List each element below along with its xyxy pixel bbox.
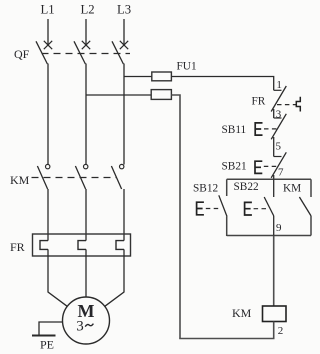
FR trip element symbol xyxy=(296,97,300,112)
contactor KM pole 1 fixed contact circle xyxy=(46,164,50,168)
wire L2 to QF xyxy=(85,19,87,46)
breaker QF pole 1 X mark xyxy=(44,41,52,49)
SB21 actuator dashed link xyxy=(264,165,277,167)
wire node7 to parallel box xyxy=(273,175,275,179)
wire QF pole2 to KM contact xyxy=(85,64,87,165)
breaker QF pole 2 blade xyxy=(74,41,85,64)
wire KM pole1 to FR heater xyxy=(47,189,49,241)
contactor KM pole 3 blade xyxy=(111,166,121,189)
svg-text:SB11: SB11 xyxy=(222,124,247,136)
pushbutton SB11 actuator E xyxy=(255,123,262,135)
wire coil to bottom return xyxy=(273,322,275,339)
svg-text:KM: KM xyxy=(283,182,301,194)
svg-text:QF: QF xyxy=(14,47,30,61)
svg-text:SB12: SB12 xyxy=(193,182,218,194)
wire FR phase2 to motor xyxy=(85,249,87,297)
wire L2 tap to fuse FU1 lower xyxy=(86,94,152,96)
wire L1 to QF xyxy=(47,19,49,46)
thermal relay FR box xyxy=(33,234,131,256)
contactor KM pole 3 fixed contact circle xyxy=(120,164,124,168)
wire node1 to node3 xyxy=(273,109,275,118)
SB12 actuator dashed link xyxy=(206,208,222,210)
fuse FU1 upper body xyxy=(152,72,172,81)
relay contact FR (NC) seat tick xyxy=(274,89,282,91)
node L3 xyxy=(117,3,131,17)
svg-text:SB21: SB21 xyxy=(222,160,247,172)
wire FR phase3 to motor xyxy=(105,249,124,306)
FR heater element phase 2 xyxy=(78,241,86,250)
parallel branch top wire xyxy=(227,178,311,180)
wire node9 to coil xyxy=(273,236,275,307)
SB11 actuator dashed link xyxy=(264,128,277,130)
wire L3 tap to fuse FU1 upper xyxy=(124,76,152,78)
pushbutton SB12 actuator E xyxy=(197,202,204,215)
breaker QF pole 3 blade xyxy=(112,41,123,64)
node L1 xyxy=(40,3,54,17)
parallel branch bottom wire xyxy=(227,235,311,237)
svg-text:PE: PE xyxy=(40,338,54,352)
FR heater element phase 1 xyxy=(40,241,48,250)
breaker QF pole 1 blade xyxy=(36,41,47,64)
pushbutton SB12 (NO) blade xyxy=(219,195,227,216)
ground PE bar xyxy=(32,335,56,337)
svg-text:7: 7 xyxy=(278,167,284,179)
svg-text:KM: KM xyxy=(232,306,252,320)
contactor KM linkage dashed line xyxy=(32,177,118,179)
FR trip actuator dashed link xyxy=(277,104,296,106)
wire fuse upper to control corner xyxy=(171,77,273,91)
svg-text:1: 1 xyxy=(276,79,282,91)
SB22 actuator dashed link xyxy=(254,208,269,210)
wire KM pole3 to FR heater xyxy=(123,189,125,241)
svg-text:3: 3 xyxy=(76,319,84,335)
pushbutton SB21 (NC) seat tick xyxy=(274,156,282,158)
wire FR phase1 to motor xyxy=(48,249,67,306)
svg-text:L2: L2 xyxy=(80,3,94,17)
wire QF pole1 to KM contact xyxy=(47,64,49,165)
svg-text:9: 9 xyxy=(276,222,282,234)
svg-text:FR: FR xyxy=(10,240,25,254)
wire L3 to QF xyxy=(123,19,125,46)
wire SB22 branch upper xyxy=(273,179,275,197)
fuse FU1 lower body xyxy=(151,90,171,100)
relay contact FR (NC) blade xyxy=(271,86,286,112)
svg-text:FR: FR xyxy=(252,96,266,108)
wire KM aux branch lower xyxy=(310,216,312,236)
svg-text:SB22: SB22 xyxy=(234,181,259,193)
wire KM aux branch upper xyxy=(310,179,312,197)
svg-text:2: 2 xyxy=(278,325,284,337)
FR heater element phase 3 xyxy=(116,241,124,250)
svg-text:5: 5 xyxy=(276,140,282,152)
breaker QF pole 3 X mark xyxy=(120,41,128,49)
pushbutton SB22 actuator E xyxy=(245,202,252,215)
svg-text:L1: L1 xyxy=(40,3,54,17)
wire fuse lower to return rail corner xyxy=(171,95,180,339)
svg-text:L3: L3 xyxy=(117,3,131,17)
coil KM body xyxy=(263,306,287,322)
wire SB22 branch lower to node 9 xyxy=(273,216,275,236)
node L2 xyxy=(80,3,94,17)
contactor KM pole 1 blade xyxy=(37,166,47,189)
breaker QF pole 2 X mark xyxy=(82,41,90,49)
bottom return wire xyxy=(179,338,274,340)
contactor KM pole 2 blade xyxy=(75,166,85,189)
wire motor to PE xyxy=(39,322,63,336)
pushbutton SB21 actuator E xyxy=(255,161,262,173)
wire node3 to node5 xyxy=(273,137,275,157)
breaker QF linkage dashed line xyxy=(42,53,131,55)
wire KM pole2 to FR heater xyxy=(85,189,87,241)
contactor KM pole 2 fixed contact circle xyxy=(84,164,88,168)
wire SB12 branch upper xyxy=(226,179,228,196)
pushbutton SB11 (NC) seat tick xyxy=(274,117,282,119)
pushbutton SB22 (NO) blade xyxy=(264,197,274,216)
pushbutton SB11 (NC) blade xyxy=(271,114,286,140)
auxiliary contact KM (NO) blade xyxy=(299,197,311,216)
svg-text:FU1: FU1 xyxy=(177,60,197,72)
pushbutton SB21 (NC) blade xyxy=(271,152,286,178)
svg-text:KM: KM xyxy=(10,173,30,187)
svg-text:3: 3 xyxy=(276,109,282,121)
wire SB12 branch lower xyxy=(226,217,228,237)
motor M circle xyxy=(63,297,110,344)
wire QF pole3 to KM contact xyxy=(123,64,125,165)
